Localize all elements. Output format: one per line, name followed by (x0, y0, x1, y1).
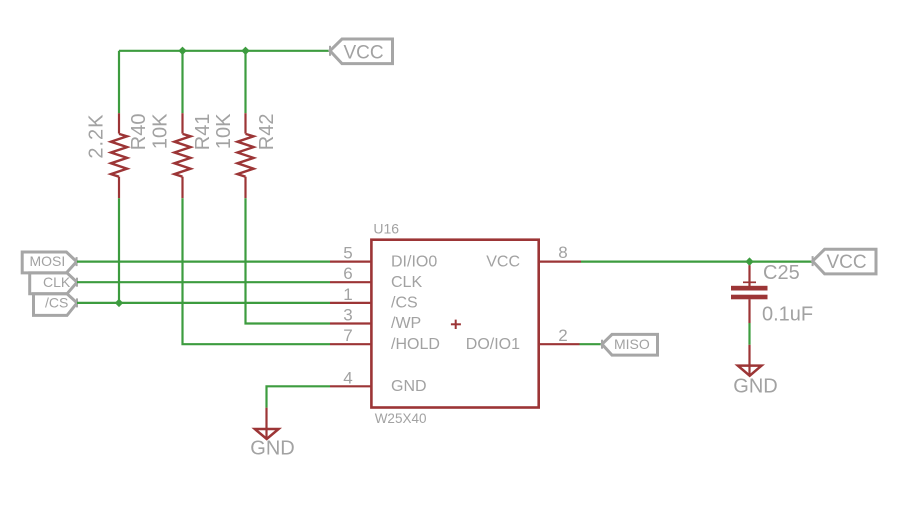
wire top of R40 (118, 51, 120, 113)
tick at MOSI flag tip (76, 257, 78, 266)
zigzag body of R42 (237, 134, 253, 177)
zigzag body of R41 (174, 134, 190, 177)
svg-text:/CS: /CS (45, 295, 68, 311)
wire /CS to pin 1 (77, 302, 330, 304)
svg-text:VCC: VCC (344, 42, 384, 63)
svg-text:MISO: MISO (614, 336, 650, 352)
resistor R40 (86, 51, 151, 198)
svg-text:VCC: VCC (486, 253, 520, 270)
tick at MISO flag tip (601, 340, 603, 349)
svg-text:R42: R42 (256, 114, 278, 151)
flag /CS (34, 294, 78, 316)
supply flag VCC (top) (330, 39, 393, 64)
flag MISO (602, 334, 658, 355)
pin 5 stub (330, 261, 371, 263)
svg-text:GND: GND (250, 438, 294, 460)
pin 4 stub (330, 385, 371, 387)
wire top of R41 (181, 51, 183, 113)
wire cap to GND (748, 323, 750, 345)
pin 7 stub (330, 343, 371, 345)
junction /CS with R40 (115, 299, 123, 307)
cap pin bottom (748, 299, 750, 323)
ground symbol (right) (733, 345, 777, 398)
junction VCC net at C25 (745, 257, 753, 265)
junction on VCC rail at R41 (178, 47, 186, 55)
svg-text:2: 2 (558, 326, 567, 345)
zigzag body of R40 (111, 134, 127, 177)
pin 1 of R40 (118, 113, 120, 133)
flag MOSI (22, 252, 76, 273)
wire pin 4 to GND (267, 386, 331, 407)
pin 3 stub (330, 322, 371, 324)
tick at CLK flag tip (76, 278, 78, 287)
wire pin 2 to MISO flag (580, 343, 603, 345)
svg-text:/HOLD: /HOLD (391, 336, 440, 353)
svg-text:8: 8 (558, 243, 567, 262)
svg-text:7: 7 (343, 326, 352, 345)
svg-text:1: 1 (343, 285, 352, 304)
plate top (731, 286, 768, 291)
svg-text:U16: U16 (373, 221, 399, 237)
tick at /CS flag tip (76, 298, 78, 307)
supply flag VCC (right) (813, 249, 876, 274)
svg-text:DI/IO0: DI/IO0 (391, 253, 437, 270)
wire R40 bottom to /CS net (118, 198, 120, 303)
svg-text:CLK: CLK (43, 274, 71, 290)
pin 8 stub (538, 261, 581, 263)
wire junction to cap pin (748, 262, 750, 266)
resistor R41 (150, 51, 215, 198)
svg-text:R41: R41 (192, 114, 214, 151)
svg-text:GND: GND (391, 378, 427, 395)
pin end tick (743, 281, 756, 283)
svg-text:2.2K: 2.2K (86, 114, 108, 159)
wire R42 bottom to /WP pin (246, 198, 331, 323)
GND triangle (right) (738, 366, 762, 376)
junction on VCC rail at R42 (241, 47, 249, 55)
svg-text:GND: GND (733, 375, 777, 397)
svg-text:VCC: VCC (827, 252, 867, 273)
svg-text:6: 6 (343, 264, 352, 283)
IC U16 body (371, 240, 538, 408)
resistor R42 (213, 51, 278, 198)
svg-text:3: 3 (343, 306, 352, 325)
wire top of R42 (244, 51, 246, 113)
svg-text:10K: 10K (213, 113, 235, 149)
pin 2 of R41 (181, 177, 183, 199)
capacitor C25 (731, 262, 813, 326)
ground symbol (left) (250, 408, 294, 460)
GND pin (left) (265, 408, 267, 438)
wire MOSI to pin 5 (77, 261, 330, 263)
pin 2 of R42 (244, 177, 246, 199)
svg-text:/CS: /CS (391, 295, 418, 312)
tick at right VCC flag tip (812, 256, 814, 266)
svg-text:W25X40: W25X40 (375, 411, 427, 426)
pin 1 of R42 (244, 113, 246, 133)
plate bottom (731, 295, 768, 300)
svg-text:10K: 10K (150, 113, 172, 149)
origin cross of U16 (451, 320, 461, 329)
svg-text:MOSI: MOSI (30, 253, 66, 269)
svg-text:0.1uF: 0.1uF (762, 304, 813, 326)
svg-text:5: 5 (343, 244, 352, 263)
wire CLK to pin 6 (77, 281, 330, 283)
wire VCC top rail (119, 50, 330, 52)
pin 1 stub (330, 302, 371, 304)
pin 6 stub (330, 281, 371, 283)
tick at VCC top flag tip (329, 46, 331, 56)
svg-text:C25: C25 (763, 262, 800, 284)
cap pin top (748, 265, 750, 286)
svg-text:R40: R40 (128, 114, 150, 151)
svg-text:CLK: CLK (391, 274, 422, 291)
svg-text:DO/IO1: DO/IO1 (466, 336, 520, 353)
svg-text:4: 4 (343, 368, 352, 387)
pin 2 stub (538, 343, 580, 345)
pin 2 of R40 (118, 177, 120, 199)
wire pin 8 to VCC flag (581, 261, 813, 263)
pin 1 of R41 (181, 113, 183, 133)
wire R41 bottom to /HOLD pin (183, 198, 331, 344)
flag CLK (30, 273, 77, 294)
GND triangle (left) (255, 429, 279, 439)
GND pin (right) (748, 345, 750, 374)
svg-text:/WP: /WP (391, 315, 421, 332)
